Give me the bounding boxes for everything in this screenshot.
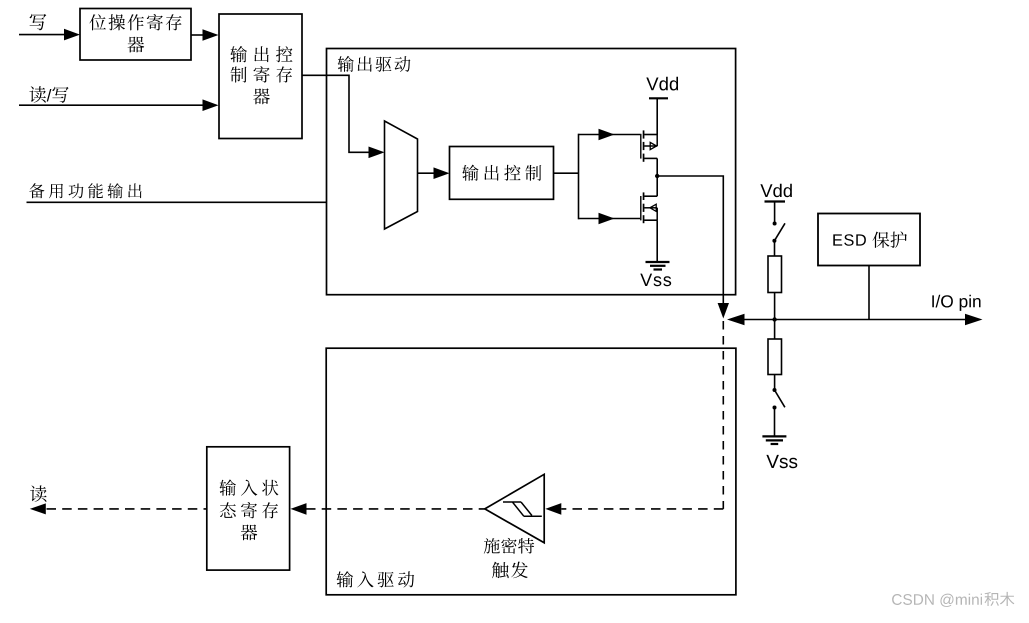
wire S1 to R1	[774, 241, 776, 256]
label Vss (protection)	[766, 455, 797, 468]
wire ESD to I/O line	[868, 266, 870, 320]
dashed wire I/O to schmitt	[722, 321, 724, 509]
I/O pin line	[738, 319, 968, 321]
wire PMOS gate	[579, 134, 641, 136]
wire S2 to ground	[774, 408, 776, 437]
label Vss	[640, 274, 671, 287]
resistor R1	[768, 256, 782, 293]
wire NMOS source to ground	[656, 220, 658, 262]
wire write input	[19, 34, 66, 36]
multiplexer	[385, 121, 418, 229]
box output control 输出控制	[450, 147, 554, 200]
wire outreg to mux	[302, 75, 370, 152]
label 备用功能输出	[29, 183, 142, 198]
wire PMOS source to NMOS drain	[656, 158, 658, 196]
wire alternate function output	[27, 201, 371, 203]
wire output node to I/O	[657, 176, 723, 304]
switch S2 (protection diode to Vss)	[773, 388, 785, 410]
label 读	[30, 485, 46, 502]
ground Vss (protection)	[762, 436, 786, 444]
input driver box 输入驱动	[326, 348, 736, 595]
wire mux to output control	[418, 172, 437, 174]
register bit-operation 位操作寄存器	[80, 9, 191, 61]
watermark CSDN @mini积木	[892, 592, 1014, 607]
wire R2 to S2	[774, 375, 776, 390]
schmitt trigger U1 施密特触发	[485, 474, 544, 543]
wire NMOS gate	[579, 218, 641, 220]
wire read/write input	[19, 104, 205, 106]
label Vdd (protection)	[760, 184, 792, 198]
wire output control to gate split	[554, 172, 579, 174]
dashed wire input register to read	[47, 508, 207, 510]
register input-state 输入状态寄存器	[207, 447, 290, 570]
dashed wire schmitt to input register	[306, 508, 485, 510]
switch S1 (protection diode to Vdd)	[772, 222, 785, 243]
register output-control 输出控制寄存器	[219, 14, 302, 139]
output driver box 输出驱动	[327, 49, 736, 295]
resistor R2	[768, 339, 782, 375]
junction I/O node	[772, 317, 776, 321]
label I/O pin	[932, 295, 980, 311]
transistor Q2 NMOS	[640, 192, 657, 223]
label 写	[30, 14, 47, 30]
power Vdd bar (protection)	[765, 200, 786, 202]
junction output node	[655, 174, 659, 178]
ground Vss (driver)	[646, 262, 670, 270]
transistor Q1 PMOS	[640, 130, 657, 161]
wire gate split vertical	[578, 134, 580, 220]
power Vdd supply bar	[656, 98, 658, 134]
label Vdd	[646, 77, 678, 91]
wire R1 to I/O node	[774, 293, 776, 320]
box ESD protection ESD 保护	[818, 214, 920, 266]
wire bitreg to outreg	[191, 34, 205, 36]
wire I/O to R2	[774, 320, 776, 340]
label 读/写	[29, 86, 68, 103]
